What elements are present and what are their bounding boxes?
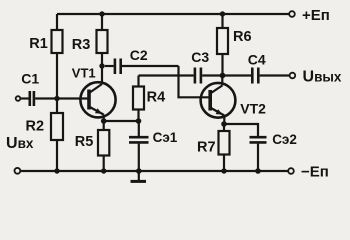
node bottom rail Сэ2 xyxy=(255,168,261,174)
resistor R2 xyxy=(51,99,63,172)
node collector VT1 xyxy=(99,63,104,68)
resistor R7 xyxy=(219,124,230,171)
node bottom rail R2 xyxy=(54,168,59,173)
wire top rail +Еп xyxy=(57,13,289,15)
svg-text:R4: R4 xyxy=(147,89,166,105)
terminal Uвх lower xyxy=(15,168,21,174)
svg-text:Uвых: Uвых xyxy=(303,68,342,85)
resistor R6 xyxy=(217,14,228,74)
resistor R5 xyxy=(98,121,109,171)
terminal Uвых xyxy=(290,73,296,79)
svg-text:R1: R1 xyxy=(29,36,48,52)
svg-text:+Еп: +Еп xyxy=(302,7,330,24)
capacitor C2 xyxy=(105,59,179,75)
capacitor Сэ2 xyxy=(250,137,267,171)
capacitor C1 xyxy=(21,91,88,106)
terminal −Еп xyxy=(288,168,294,174)
node on top rail at R3 xyxy=(99,11,104,16)
node emitter VT1 xyxy=(101,118,107,124)
node bottom rail R7 xyxy=(221,168,226,173)
terminal Uвх upper xyxy=(16,96,21,101)
svg-text:C1: C1 xyxy=(21,71,39,87)
node emitter VT2 xyxy=(221,121,227,127)
svg-text:R7: R7 xyxy=(197,140,216,156)
ground xyxy=(131,171,147,181)
svg-text:R5: R5 xyxy=(75,134,94,150)
resistor R4 xyxy=(133,76,144,122)
svg-text:Сэ2: Сэ2 xyxy=(272,132,297,147)
node on top rail at R6 xyxy=(220,11,225,16)
node collector VT2 xyxy=(220,73,226,79)
wire emitter VT2 to Сэ2 xyxy=(224,124,258,136)
capacitor C3 xyxy=(195,68,220,84)
node base VT1 xyxy=(54,96,59,101)
node R4 bottom xyxy=(136,118,142,124)
wire R4 to C3 xyxy=(139,74,194,76)
svg-text:VT1: VT1 xyxy=(72,66,96,81)
wire C2 to base VT2 xyxy=(179,66,209,97)
node bottom rail R5 xyxy=(101,168,106,173)
transistor VT2 xyxy=(201,76,236,125)
terminal +Еп xyxy=(289,11,295,17)
svg-text:VT2: VT2 xyxy=(240,101,266,117)
capacitor Сэ1 xyxy=(129,121,149,171)
svg-text:R3: R3 xyxy=(72,37,91,53)
svg-text:−Еп: −Еп xyxy=(301,164,329,181)
node bottom rail Сэ1 xyxy=(136,168,142,174)
transistor VT1 xyxy=(80,66,115,121)
svg-text:R6: R6 xyxy=(233,29,252,45)
svg-text:C2: C2 xyxy=(130,47,148,63)
resistor R1 xyxy=(52,14,63,96)
svg-text:Uвх: Uвх xyxy=(6,135,34,152)
wire emitter VT1 row xyxy=(104,120,139,122)
svg-text:R2: R2 xyxy=(26,118,45,134)
wire bottom rail −Еп xyxy=(21,170,288,172)
svg-text:Сэ1: Сэ1 xyxy=(153,130,178,145)
resistor R3 xyxy=(97,14,108,64)
svg-text:C4: C4 xyxy=(248,51,266,67)
svg-text:C3: C3 xyxy=(191,49,209,65)
capacitor C4 xyxy=(225,68,290,84)
